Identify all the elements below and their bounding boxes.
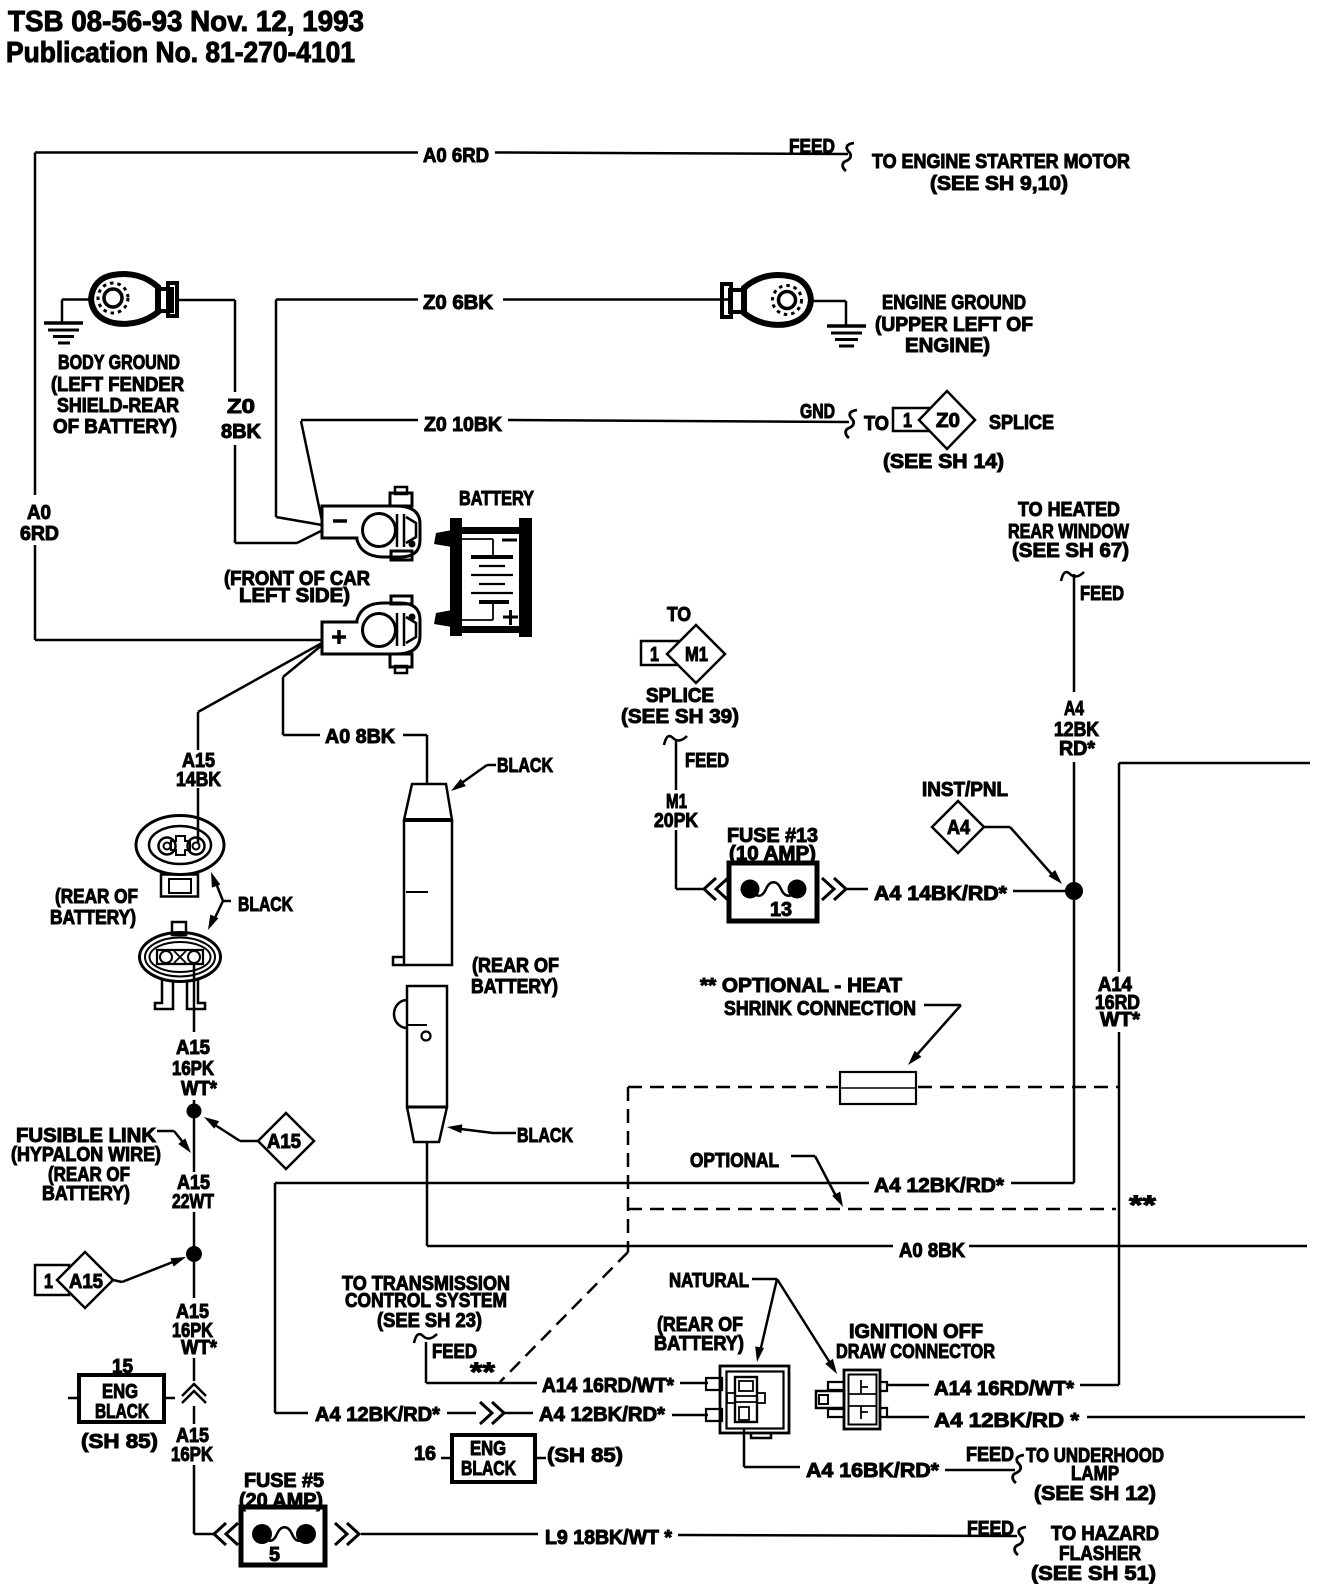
fuse 5 right chevrons [335,1523,347,1545]
svg-text:BLACK: BLACK [238,894,293,916]
wire A15 22WT [193,1118,196,1172]
svg-text:BLACK: BLACK [95,1401,149,1423]
svg-text:14BK: 14BK [176,769,221,791]
svg-text:ENGINE GROUND: ENGINE GROUND [882,292,1026,314]
svg-text:BATTERY): BATTERY) [50,907,136,929]
wire M1 to fuse 13 [676,888,706,891]
splice pin box 1 [893,408,936,431]
svg-text:A14 16RD/WT*: A14 16RD/WT* [934,1378,1074,1400]
svg-text:SPLICE: SPLICE [646,685,714,707]
svg-text:A15: A15 [176,1037,210,1059]
wire ground drop [61,300,64,323]
svg-text:BLACK: BLACK [497,755,553,777]
wire M1 20PK [675,739,678,790]
wire 4-way connector bottom A4 16BK/RD* [743,1428,746,1467]
svg-text:BATTERY): BATTERY) [654,1333,744,1355]
svg-text:(SEE SH 9,10): (SEE SH 9,10) [930,173,1068,195]
fuse 13 box [729,863,817,921]
svg-text:FEED: FEED [789,136,835,158]
svg-text:FUSE #5: FUSE #5 [244,1470,324,1492]
svg-text:13: 13 [770,899,792,921]
wire Z0 6BK vertical to negative clamp [275,300,278,518]
wire A15 14BK vertical [197,712,200,750]
oval connector lower (weatherpack) [172,922,186,935]
svg-text:TO: TO [667,604,691,626]
svg-text:16PK: 16PK [172,1058,214,1080]
svg-text:16: 16 [414,1443,436,1465]
ground symbol body ground [44,321,83,325]
junction dot A15 (fusible link) [187,1104,202,1119]
leader A15 diamond to junction [240,1140,258,1143]
gnd squiggle [846,410,857,438]
svg-text:1: 1 [650,644,659,666]
svg-text:FEED: FEED [685,750,729,772]
wire Z0 10BK [301,419,418,422]
dashed optional diagonal [500,1252,628,1382]
connector diamond A4 [932,801,984,853]
svg-text:TO HEATED: TO HEATED [1018,499,1120,521]
wire Z0 6BK [276,298,418,301]
svg-text:(SEE SH 14): (SEE SH 14) [883,451,1004,473]
wire A4 12BK RD* vertical upper [1073,574,1076,692]
ignition off draw connector [844,1370,880,1429]
svg-text:A0 8BK: A0 8BK [899,1240,966,1262]
fuse 5 element [252,1524,272,1544]
svg-text:22WT: 22WT [172,1191,214,1213]
svg-text:A4 12BK/RD *: A4 12BK/RD * [934,1410,1079,1432]
svg-text:ENGINE): ENGINE) [905,335,990,357]
wire Z0 10BK diagonal to negative clamp [301,421,322,521]
fuse 13 left chevrons [704,878,716,900]
svg-text:DRAW CONNECTOR: DRAW CONNECTOR [836,1341,995,1363]
svg-text:BLACK: BLACK [517,1125,573,1147]
wire optional row left vertical [274,1183,277,1413]
svg-text:FLASHER: FLASHER [1059,1543,1141,1565]
fuse 13 right chevrons [822,878,834,900]
svg-text:LEFT SIDE): LEFT SIDE) [239,585,350,607]
svg-text:**: ** [470,1357,496,1387]
svg-text:FEED: FEED [1080,583,1124,605]
svg-text:TSB 08-56-93 Nov. 12, 1993: TSB 08-56-93 Nov. 12, 1993 [8,6,364,38]
wire positive clamp to A0 8BK [283,645,322,677]
svg-text:**: ** [1129,1190,1157,1220]
battery minus mark [502,539,517,542]
svg-text:6RD: 6RD [20,523,59,545]
svg-text:ENG: ENG [102,1381,138,1403]
wire A4 12BK/RD* row [275,1412,308,1415]
splice diamond A15 (left) [57,1252,113,1308]
negative battery clamp [322,506,420,557]
svg-text:WT*: WT* [1100,1009,1140,1031]
wire to junction 1 [193,1100,196,1111]
fuse 5 box [241,1507,325,1565]
svg-text:5: 5 [269,1544,280,1566]
svg-text:A4 16BK/RD*: A4 16BK/RD* [806,1460,939,1482]
wire A0 6RD horizontal [35,151,418,154]
svg-text:(UPPER LEFT OF: (UPPER LEFT OF [875,314,1033,336]
svg-text:A15: A15 [267,1131,301,1153]
svg-text:FEED: FEED [966,1444,1014,1466]
inline connector lower half [407,986,447,1107]
splice diamond M1 [667,625,725,683]
svg-text:(SEE SH 12): (SEE SH 12) [1034,1483,1156,1505]
feed squiggle (engine starter) [843,143,854,171]
svg-text:Z0 6BK: Z0 6BK [423,292,494,314]
svg-text:20PK: 20PK [654,810,698,832]
svg-text:A4 12BK/RD*: A4 12BK/RD* [874,1175,1004,1197]
svg-text:Publication No. 81-270-4101: Publication No. 81-270-4101 [6,37,355,69]
svg-text:(SH 85): (SH 85) [81,1431,158,1453]
svg-text:WT*: WT* [181,1337,217,1359]
wire A15 16PK WT* [193,963,196,1032]
wire Z0 8BK vertical [234,300,237,392]
svg-text:(LEFT FENDER: (LEFT FENDER [51,374,185,396]
wire junction down to optional row [1073,900,1076,1183]
splice diamond A15 (right) [258,1113,314,1169]
svg-text:WT*: WT* [181,1078,217,1100]
svg-text:(REAR OF: (REAR OF [472,955,559,977]
wire ignition connector to A14 label [887,1384,929,1387]
leader NATURAL [752,1278,777,1281]
leader OPTIONAL [791,1155,815,1158]
dashed optional vertical [627,1087,630,1252]
svg-text:BODY GROUND: BODY GROUND [58,352,180,374]
svg-text:(SH 85): (SH 85) [547,1445,623,1467]
svg-text:LAMP: LAMP [1071,1463,1119,1485]
svg-text:16PK: 16PK [171,1444,213,1466]
svg-text:(REAR OF: (REAR OF [55,886,138,908]
svg-text:L9 18BK/WT *: L9 18BK/WT * [545,1527,672,1549]
svg-text:8BK: 8BK [221,421,262,443]
svg-text:A0: A0 [27,502,51,524]
svg-text:A4 14BK/RD*: A4 14BK/RD* [874,883,1007,905]
svg-text:OF BATTERY): OF BATTERY) [53,416,177,438]
wire to 4-way connector pin 2 [672,1414,708,1417]
wire body ground to ring [62,298,92,301]
svg-text:Z0: Z0 [936,410,960,432]
wire fuse 13 to junction [847,888,868,891]
wire inline connector down [426,1142,429,1246]
ring terminal body ground [91,274,158,324]
wire A4 12BK/RD* optional row [275,1182,869,1185]
svg-text:A4 12BK/RD*: A4 12BK/RD* [315,1404,440,1426]
svg-text:ENG: ENG [470,1438,506,1460]
svg-text:A4 12BK/RD*: A4 12BK/RD* [539,1404,665,1426]
svg-text:M1: M1 [685,644,708,666]
svg-text:** OPTIONAL - HEAT: ** OPTIONAL - HEAT [700,975,902,997]
fuse 13 element [741,880,760,899]
ring terminal engine ground [744,275,811,325]
splice pin box 1 (A15) [35,1265,69,1295]
wire A15 16PK WT* (lower) [193,1262,196,1298]
svg-text:OPTIONAL: OPTIONAL [690,1150,779,1172]
svg-text:(SEE SH 39): (SEE SH 39) [621,706,739,728]
feed bracket (heated rear window) [1061,572,1084,581]
eng black box 15 [79,1375,164,1422]
svg-text:(HYPALON WIRE): (HYPALON WIRE) [11,1144,161,1166]
leader fusible link [157,1130,174,1133]
svg-text:BLACK: BLACK [461,1458,516,1480]
svg-text:A14 16RD/WT*: A14 16RD/WT* [542,1375,674,1397]
underhood squiggle [1013,1455,1024,1483]
heat shrink connection box [840,1072,916,1104]
oval connector upper (2-pin) [136,816,224,875]
svg-text:SHRINK CONNECTION: SHRINK CONNECTION [724,998,916,1020]
junction dot A15 (lower) [186,1246,202,1262]
battery plates [471,555,513,559]
battery [450,518,462,636]
svg-text:A4: A4 [1064,698,1085,720]
wire A14 16RD/WT* vertical [1118,1032,1121,1385]
svg-text:SPLICE: SPLICE [989,412,1054,434]
svg-text:A0 6RD: A0 6RD [423,145,489,167]
wire transmission feed [425,1342,428,1383]
feed bracket (transmission) [414,1334,437,1343]
junction dot A4 [1065,882,1083,900]
feed bracket (M1) [664,736,687,745]
wire ring terminal to corner [175,299,235,302]
svg-text:BATTERY): BATTERY) [471,976,558,998]
fuse 5 left chevrons [214,1523,226,1545]
dashed optional wire upper [628,1086,838,1089]
svg-text:(SEE SH 67): (SEE SH 67) [1012,540,1129,562]
wire A0 6RD left vertical [34,153,37,496]
svg-text:A0 8BK: A0 8BK [325,726,396,748]
wire A4 12BK RD* vertical lower [1073,762,1076,882]
wire A14 16RD/WT* to ignition connector [1080,1384,1119,1387]
svg-text:(SEE SH 23): (SEE SH 23) [377,1310,482,1332]
hazard squiggle [1015,1527,1026,1555]
eng black box 16 [452,1435,535,1482]
splice pin box 1 (M1) [641,641,679,665]
arrow chevrons A4 row [480,1402,492,1424]
svg-text:(SEE SH 51): (SEE SH 51) [1031,1563,1156,1584]
svg-text:TO HAZARD: TO HAZARD [1051,1523,1159,1545]
wire A0 6RD to positive clamp [35,639,322,642]
leader INST/PNL to junction [984,826,1010,829]
svg-text:1: 1 [44,1271,53,1293]
wire A15 to fuse 5 [193,1465,196,1534]
wire positive clamp to A15 [198,643,322,712]
svg-text:BATTERY: BATTERY [459,488,535,510]
wire engine ground [811,300,846,303]
svg-text:Z0 10BK: Z0 10BK [424,414,503,436]
svg-text:TO: TO [864,413,889,435]
4-way connector rear of battery [720,1366,789,1433]
ground symbol engine ground [827,324,866,328]
svg-text:TO ENGINE STARTER MOTOR: TO ENGINE STARTER MOTOR [872,151,1130,173]
wire A0 8BK to inline connector [403,734,427,737]
battery plus mark [503,616,518,619]
wire A14 16RD/WT* top corner [1119,762,1310,765]
positive battery clamp [322,603,420,654]
svg-text:FEED: FEED [967,1518,1014,1540]
svg-text:INST/PNL: INST/PNL [922,779,1008,801]
svg-text:IGNITION OFF: IGNITION OFF [849,1321,983,1343]
battery internal wiring [452,538,493,540]
wire break symbol [182,1384,206,1396]
svg-text:CONTROL SYSTEM: CONTROL SYSTEM [345,1290,507,1312]
svg-text:GND: GND [800,401,835,423]
svg-text:SHIELD-REAR: SHIELD-REAR [57,395,179,417]
wire L9 18BK/WT [361,1533,538,1536]
svg-text:RD*: RD* [1059,738,1095,760]
dashed optional wire lower [628,1208,1116,1211]
inline connector upper half [404,784,452,820]
wire A0 8BK row [427,1245,893,1248]
svg-text:A15: A15 [69,1271,103,1293]
leader 1 A15 to junction [113,1280,122,1282]
svg-text:1: 1 [903,410,912,432]
svg-text:BATTERY): BATTERY) [42,1183,130,1205]
svg-text:NATURAL: NATURAL [669,1270,749,1292]
splice diamond Z0 [919,391,975,449]
wire Z0 8BK bottom to negative clamp [235,542,297,545]
leader heat shrink [924,1004,961,1007]
svg-text:A4: A4 [947,817,971,839]
wire to 4-way connector pin 1 [680,1382,708,1385]
svg-text:Z0: Z0 [227,396,255,418]
wire ignition connector A4 row [887,1416,929,1419]
